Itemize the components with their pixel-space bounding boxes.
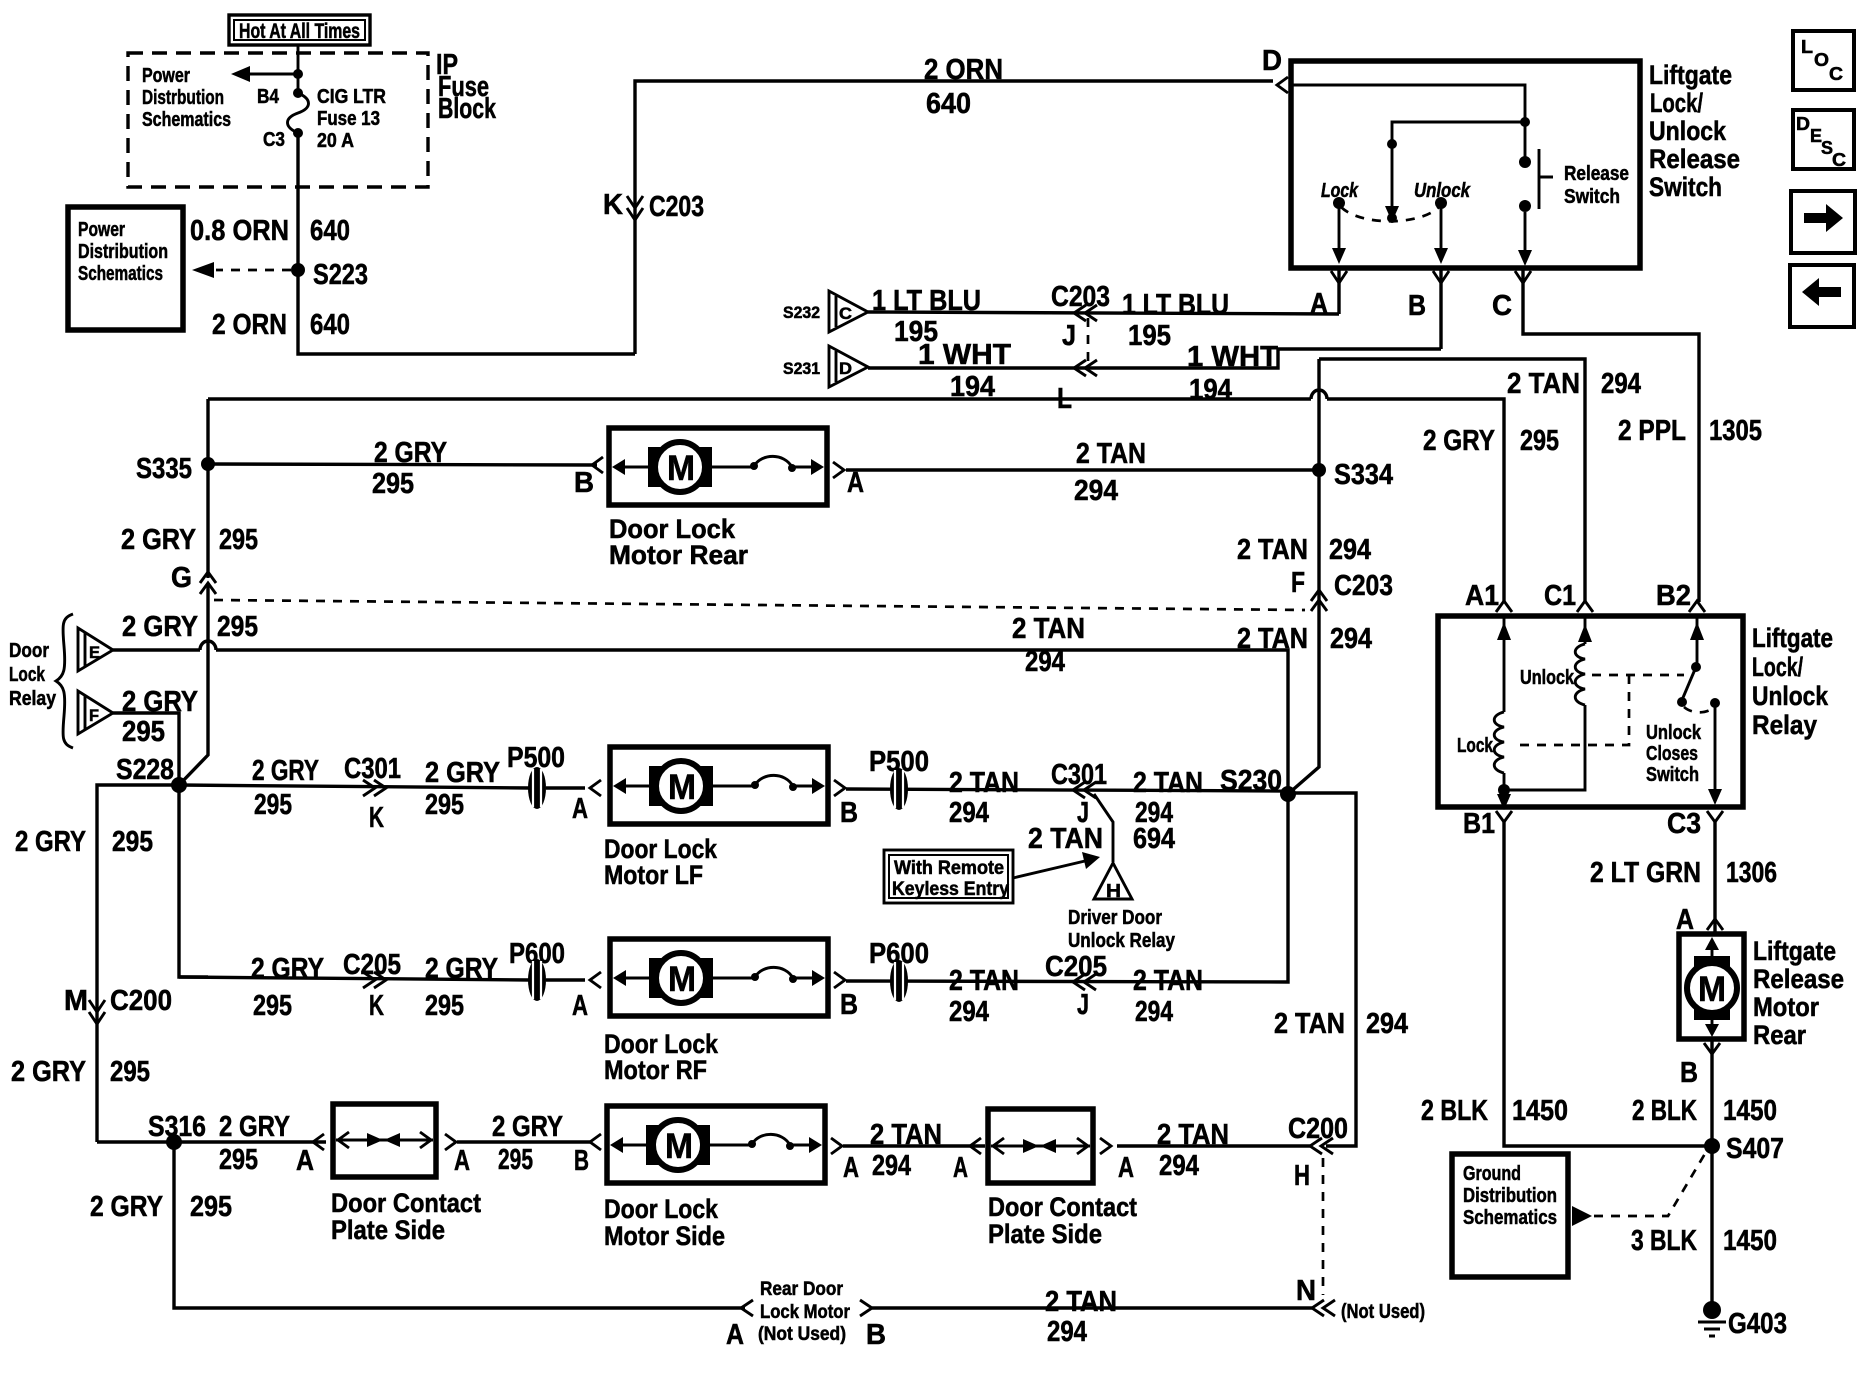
svg-text:C203: C203 — [1051, 281, 1110, 313]
svg-text:294: 294 — [1074, 475, 1118, 507]
svg-text:M: M — [665, 1127, 693, 1166]
svg-text:Rear: Rear — [1753, 1020, 1806, 1050]
wire: plate A to motor side B — [445, 1111, 601, 1177]
svg-text:1 LT BLU: 1 LT BLU — [872, 285, 981, 317]
label Hot At All Times — [229, 15, 370, 45]
svg-text:Distribution: Distribution — [78, 241, 168, 263]
svg-text:2 GRY: 2 GRY — [15, 826, 86, 858]
svg-text:295: 295 — [425, 789, 464, 821]
svg-text:2 GRY: 2 GRY — [121, 524, 196, 556]
svg-text:2 GRY: 2 GRY — [492, 1111, 563, 1143]
dashed connector C203 G to F — [214, 600, 1305, 610]
svg-text:2 ORN: 2 ORN — [212, 309, 287, 341]
wire: 2 TAN 694 branch to driver door unlock relay — [1028, 794, 1175, 862]
wire: motor side A to plate side 2 — [831, 1119, 985, 1184]
svg-text:640: 640 — [310, 215, 350, 247]
wire: 2 TAN 294 motor rear A to S334 — [833, 438, 1319, 507]
svg-text:2 TAN: 2 TAN — [1133, 965, 1203, 997]
relay lock coil branch (A1 to B1) — [1457, 616, 1511, 810]
svg-text:M: M — [64, 985, 88, 1017]
svg-text:Liftgate: Liftgate — [1752, 623, 1833, 653]
svg-text:Switch: Switch — [1564, 186, 1620, 208]
svg-text:294: 294 — [1330, 623, 1372, 655]
svg-text:694: 694 — [1133, 823, 1175, 855]
svg-text:(Not Used): (Not Used) — [758, 1324, 846, 1345]
svg-text:295: 295 — [190, 1191, 232, 1223]
svg-text:S228: S228 — [116, 754, 174, 786]
svg-text:Motor RF: Motor RF — [604, 1055, 707, 1085]
door lock relay label and brace — [9, 614, 73, 748]
connector C203 dashed J-L — [1087, 318, 1090, 362]
door lock motor rear — [609, 428, 827, 570]
Liftgate Lock/Unlock Release Switch box — [1291, 60, 1740, 268]
splice S335 — [136, 399, 215, 578]
svg-text:A: A — [847, 467, 864, 499]
svg-text:A: A — [296, 1145, 314, 1177]
wire label: 2 GRY 295 down to relay A1 — [1423, 425, 1559, 457]
svg-text:294: 294 — [1366, 1008, 1408, 1040]
relay unlock coil branch (C1) — [1504, 616, 1592, 790]
splice S407 — [1704, 1133, 1784, 1165]
door contact plate side (left) — [331, 1104, 481, 1245]
svg-text:1450: 1450 — [1723, 1225, 1777, 1257]
svg-text:C200: C200 — [1288, 1113, 1348, 1145]
labels 2 TAN 294 above F connector — [1237, 534, 1371, 566]
svg-text:2 GRY: 2 GRY — [1423, 425, 1495, 457]
svg-text:295: 295 — [372, 468, 414, 500]
wire label: 3 BLK 1450 to ground — [1631, 1225, 1777, 1257]
svg-text:H: H — [1106, 881, 1121, 901]
svg-text:Release: Release — [1564, 163, 1629, 185]
connector F C203 on S334 vertical — [1237, 567, 1393, 655]
wire label: 2 PPL 1305 down to relay B2 — [1618, 415, 1762, 447]
dashed wire to power distribution schematics — [192, 262, 291, 278]
svg-text:With Remote: With Remote — [894, 858, 1004, 879]
splice S228 — [116, 754, 187, 793]
ground G403 — [1698, 1301, 1787, 1340]
svg-text:C200: C200 — [110, 985, 172, 1017]
svg-text:B1: B1 — [1463, 808, 1495, 840]
door lock motor LF — [604, 747, 828, 890]
svg-text:2 TAN: 2 TAN — [1507, 368, 1580, 400]
wire: A pin down to LT BLU row — [1337, 268, 1340, 314]
svg-text:Fuse 13: Fuse 13 — [317, 108, 380, 130]
svg-text:M: M — [667, 449, 695, 488]
svg-text:2 TAN: 2 TAN — [1076, 438, 1146, 470]
wire: plate side 2 to C200 H — [1117, 1144, 1310, 1147]
svg-text:294: 294 — [949, 797, 989, 829]
svg-text:2 TAN: 2 TAN — [870, 1119, 942, 1151]
svg-text:Hot At All Times: Hot At All Times — [239, 20, 360, 43]
svg-text:Liftgate: Liftgate — [1753, 936, 1836, 966]
svg-text:S334: S334 — [1334, 459, 1393, 491]
rear door lock motor (not used) row — [726, 1275, 1425, 1351]
svg-text:S230: S230 — [1220, 765, 1282, 797]
svg-text:Unlock: Unlock — [1752, 681, 1829, 711]
svg-text:294: 294 — [1159, 1150, 1199, 1182]
svg-text:Power: Power — [78, 219, 125, 241]
svg-text:294: 294 — [1025, 646, 1065, 678]
svg-text:2 GRY: 2 GRY — [425, 757, 500, 789]
svg-text:B: B — [866, 1319, 886, 1351]
svg-text:295: 295 — [219, 524, 258, 556]
wire: S228 down branch to RF row — [179, 785, 208, 977]
ground distribution schematics box — [1452, 1152, 1706, 1277]
svg-text:C: C — [839, 304, 852, 323]
svg-text:O: O — [1814, 50, 1829, 70]
splice S223 — [291, 259, 368, 291]
wire: long run to liftgate relay pin A1 (hops over S334 vertical) — [208, 390, 1504, 602]
connector M C200 on left vertical — [11, 985, 172, 1088]
svg-text:294: 294 — [1601, 368, 1641, 400]
release switch pushbutton — [1518, 149, 1629, 266]
connector C200 H — [1288, 1113, 1348, 1192]
wire: release motor B 2 BLK 1450 to S407 — [1632, 1039, 1777, 1307]
svg-text:295: 295 — [219, 1144, 258, 1176]
wire: plate 2 to C200 H labels — [1100, 1119, 1229, 1184]
svg-text:C203: C203 — [649, 191, 704, 223]
svg-text:A: A — [726, 1319, 744, 1351]
S231 triangle D — [783, 346, 868, 387]
svg-text:295: 295 — [112, 826, 153, 858]
inline connector P500 (left) — [507, 742, 601, 825]
svg-text:295: 295 — [425, 990, 464, 1022]
wire: 1 WHT 194 row (B circuit) — [868, 339, 1441, 415]
wire: 0.8 ORN 640 from fuse to S223 — [190, 133, 350, 270]
svg-text:2 TAN: 2 TAN — [1237, 534, 1308, 566]
svg-text:Schematics: Schematics — [1463, 1207, 1557, 1229]
wire: 1 LT BLU 195 row (A circuit) — [868, 281, 1339, 352]
svg-text:294: 294 — [949, 996, 989, 1028]
svg-text:20 A: 20 A — [317, 130, 354, 152]
svg-text:C205: C205 — [343, 949, 401, 981]
svg-text:Unlock Relay: Unlock Relay — [1068, 930, 1176, 952]
svg-text:Closes: Closes — [1646, 743, 1698, 765]
connector D arrow at release switch — [1262, 45, 1288, 93]
svg-text:Motor: Motor — [1753, 992, 1819, 1022]
svg-text:Relay: Relay — [1752, 710, 1817, 740]
svg-text:D: D — [1262, 45, 1282, 77]
svg-text:295: 295 — [110, 1056, 150, 1088]
svg-text:K: K — [603, 189, 623, 221]
svg-text:2 GRY: 2 GRY — [11, 1056, 86, 1088]
svg-text:Rear Door: Rear Door — [760, 1279, 844, 1300]
svg-text:2 TAN: 2 TAN — [1012, 613, 1085, 645]
svg-text:1305: 1305 — [1709, 415, 1762, 447]
S232 triangle C — [783, 291, 868, 332]
wire: 2 GRY 295 relay E to S230 vertical (hops over S335 vertical) — [113, 611, 1288, 794]
svg-text:A: A — [1118, 1152, 1134, 1184]
svg-text:D: D — [1796, 114, 1810, 134]
svg-text:A: A — [572, 990, 588, 1022]
svg-text:F: F — [1291, 567, 1305, 599]
svg-text:Motor Side: Motor Side — [604, 1221, 725, 1251]
svg-text:B4: B4 — [257, 86, 280, 108]
svg-text:G: G — [171, 562, 192, 594]
svg-text:2 GRY: 2 GRY — [122, 611, 198, 643]
wire: arrow to power distribution inside fuse block — [231, 66, 303, 82]
svg-text:Schematics: Schematics — [142, 109, 231, 131]
svg-text:L: L — [1801, 37, 1813, 57]
svg-text:1306: 1306 — [1726, 857, 1777, 889]
wire: 2 GRY 295 S335 to door lock motor rear B — [208, 437, 603, 500]
svg-text:2 GRY: 2 GRY — [219, 1111, 290, 1143]
svg-text:B: B — [840, 989, 858, 1021]
svg-text:Release: Release — [1753, 964, 1844, 994]
svg-text:C: C — [1832, 150, 1846, 170]
wire: B1 2 BLK 1450 down to S407 — [1421, 822, 1712, 1146]
svg-text:B2: B2 — [1656, 580, 1691, 612]
svg-text:A: A — [572, 793, 588, 825]
switch contacts Lock / Unlock — [1321, 180, 1471, 264]
svg-text:M: M — [668, 768, 696, 807]
svg-text:C301: C301 — [344, 753, 401, 785]
svg-text:2 ORN: 2 ORN — [924, 54, 1003, 86]
svg-text:Plate Side: Plate Side — [331, 1215, 445, 1245]
svg-text:B: B — [1680, 1057, 1698, 1089]
door lock motor side — [604, 1106, 825, 1251]
svg-text:(Not Used): (Not Used) — [1341, 1301, 1425, 1323]
svg-text:Ground: Ground — [1463, 1163, 1521, 1185]
svg-text:S223: S223 — [313, 259, 368, 291]
svg-text:H: H — [1294, 1160, 1310, 1192]
IP fuse block dashed box — [128, 49, 497, 187]
svg-text:2 TAN: 2 TAN — [1045, 1286, 1117, 1318]
wire: S230 right to C200 H vertical — [1288, 793, 1356, 1146]
svg-text:S232: S232 — [783, 303, 820, 322]
relay pins B1 C3 — [1463, 808, 1723, 840]
svg-text:J: J — [1077, 989, 1089, 1021]
relay internal dashed linkages — [1512, 675, 1684, 745]
svg-text:3 BLK: 3 BLK — [1631, 1225, 1697, 1257]
svg-text:1 WHT: 1 WHT — [918, 339, 1011, 371]
wire: 2 GRY 295 relay F down to S228 — [113, 686, 198, 785]
svg-text:295: 295 — [498, 1144, 533, 1176]
pins A B C of release switch — [1310, 271, 1531, 322]
wire: 2 ORN 640 from S223 down and right — [212, 270, 635, 354]
svg-text:Switch: Switch — [1646, 764, 1699, 786]
svg-text:Door: Door — [9, 640, 49, 662]
splice S334 on vertical from C1 run — [1288, 359, 1641, 794]
svg-text:295: 295 — [122, 716, 165, 748]
svg-text:A: A — [953, 1152, 968, 1184]
svg-text:J: J — [1062, 320, 1076, 352]
svg-text:A1: A1 — [1465, 580, 1499, 612]
driver door unlock relay triangle H — [1068, 863, 1176, 952]
svg-text:294: 294 — [1135, 996, 1173, 1028]
svg-text:2 GRY: 2 GRY — [251, 953, 324, 985]
svg-text:C301: C301 — [1051, 759, 1107, 791]
svg-text:S407: S407 — [1726, 1133, 1784, 1165]
splice S230 — [1220, 765, 1296, 802]
svg-text:195: 195 — [1128, 320, 1171, 352]
svg-text:Plate Side: Plate Side — [988, 1219, 1102, 1249]
With Remote Keyless Entry callout box — [884, 850, 1100, 903]
svg-text:B: B — [574, 1145, 589, 1177]
svg-text:2 TAN: 2 TAN — [1028, 823, 1103, 855]
svg-text:1 WHT: 1 WHT — [1187, 341, 1278, 373]
wire: RF row 2 GRY 295 C205 K — [179, 949, 530, 1022]
svg-text:Lock/: Lock/ — [1650, 88, 1703, 118]
svg-text:1 LT BLU: 1 LT BLU — [1122, 289, 1229, 321]
wire: C3 2 LT GRN 1306 to release motor A — [1590, 822, 1777, 936]
svg-text:Lock Motor: Lock Motor — [760, 1302, 851, 1323]
svg-text:A: A — [1676, 904, 1694, 936]
svg-text:F: F — [89, 706, 99, 725]
svg-text:Motor LF: Motor LF — [604, 860, 703, 890]
svg-text:294: 294 — [872, 1150, 911, 1182]
svg-text:E: E — [89, 643, 100, 662]
svg-text:Distrbution: Distrbution — [142, 87, 224, 109]
svg-text:Unlock: Unlock — [1649, 116, 1727, 146]
svg-text:2 GRY: 2 GRY — [425, 953, 498, 985]
svg-text:C203: C203 — [1334, 570, 1393, 602]
release switch internal wiring — [1293, 85, 1530, 223]
wire: S228 left branch down left side — [15, 785, 179, 1142]
svg-text:Schematics: Schematics — [78, 263, 163, 285]
svg-text:N: N — [1296, 1275, 1316, 1307]
dashed wire C200 H to N (not used) — [1322, 1158, 1325, 1295]
door lock relay terminal F triangle — [78, 691, 113, 734]
svg-text:2 TAN: 2 TAN — [1157, 1119, 1229, 1151]
svg-text:C3: C3 — [1667, 808, 1701, 840]
svg-text:Lock: Lock — [9, 664, 46, 686]
svg-text:Motor Rear: Motor Rear — [609, 540, 748, 570]
svg-text:C205: C205 — [1045, 951, 1107, 983]
svg-text:295: 295 — [254, 789, 292, 821]
splice S316 — [97, 1111, 326, 1177]
svg-text:Block: Block — [438, 93, 497, 125]
svg-text:S335: S335 — [136, 453, 192, 485]
svg-text:K: K — [369, 802, 384, 834]
svg-text:A: A — [843, 1152, 859, 1184]
svg-text:C1: C1 — [1544, 580, 1576, 612]
svg-text:194: 194 — [1189, 374, 1232, 406]
svg-text:S231: S231 — [783, 359, 820, 378]
svg-text:S316: S316 — [148, 1111, 206, 1143]
nav box right arrow — [1791, 191, 1855, 253]
svg-text:2 LT GRN: 2 LT GRN — [1590, 857, 1701, 889]
svg-text:2 GRY: 2 GRY — [252, 755, 319, 787]
svg-text:Switch: Switch — [1649, 172, 1722, 202]
relay pins A1 C1 B2 — [1465, 580, 1705, 612]
svg-text:0.8 ORN: 0.8 ORN — [190, 215, 289, 247]
wire: S335 vertical continues below G to S228 — [179, 583, 208, 785]
relay switch (B2 to C3) — [1646, 616, 1722, 805]
svg-text:Lock: Lock — [1457, 735, 1494, 757]
svg-text:640: 640 — [310, 309, 350, 341]
svg-text:Power: Power — [142, 65, 190, 87]
svg-text:2 BLK: 2 BLK — [1632, 1095, 1697, 1127]
svg-text:B: B — [574, 467, 594, 499]
svg-text:294: 294 — [1329, 534, 1371, 566]
svg-text:2 GRY: 2 GRY — [90, 1191, 163, 1223]
svg-text:295: 295 — [253, 990, 292, 1022]
svg-text:2 BLK: 2 BLK — [1421, 1095, 1488, 1127]
svg-text:K: K — [369, 990, 384, 1022]
svg-text:295: 295 — [1520, 425, 1559, 457]
liftgate release motor rear — [1679, 934, 1844, 1050]
svg-text:D: D — [839, 359, 852, 378]
wire: motor RF B through P600 to C205 J then up to S230 — [834, 794, 1288, 1028]
svg-text:295: 295 — [217, 611, 258, 643]
wire: S316 down to rear door lock motor row — [90, 1142, 745, 1308]
svg-text:294: 294 — [1047, 1316, 1087, 1348]
svg-text:2 TAN: 2 TAN — [1133, 767, 1203, 799]
inline connector P600 (left) — [509, 938, 601, 1022]
svg-text:G403: G403 — [1728, 1308, 1787, 1340]
svg-text:A: A — [1310, 288, 1328, 320]
svg-text:Door Contact: Door Contact — [331, 1188, 481, 1218]
svg-text:Lock/: Lock/ — [1752, 652, 1803, 682]
door lock motor RF — [604, 939, 828, 1085]
svg-text:2 TAN: 2 TAN — [949, 767, 1019, 799]
fuse CIG LTR Fuse 13 20 A — [257, 45, 386, 152]
svg-text:Door Contact: Door Contact — [988, 1192, 1137, 1222]
door lock relay terminal E triangle — [78, 628, 113, 671]
svg-text:Driver Door: Driver Door — [1068, 907, 1162, 929]
wire: C pin down right to 2 PPL vertical — [1523, 268, 1699, 602]
svg-text:B: B — [1408, 290, 1426, 322]
svg-text:M: M — [668, 960, 696, 999]
svg-text:2 PPL: 2 PPL — [1618, 415, 1686, 447]
svg-text:C: C — [1492, 290, 1512, 322]
svg-text:Door Lock: Door Lock — [604, 1194, 719, 1224]
svg-text:A: A — [454, 1145, 470, 1177]
labels 2 TAN 294 on right mid vertical — [1274, 1008, 1408, 1040]
nav box LOC — [1793, 31, 1854, 90]
svg-text:Unlock: Unlock — [1520, 667, 1575, 689]
svg-text:C3: C3 — [263, 129, 285, 151]
liftgate lock/unlock relay box — [1438, 616, 1833, 807]
svg-text:2 TAN: 2 TAN — [1274, 1008, 1345, 1040]
svg-text:Unlock: Unlock — [1646, 722, 1702, 744]
svg-text:M: M — [1698, 970, 1726, 1009]
wire: vertical to top 2 ORN 640 run with connector K C203 — [603, 54, 1273, 354]
svg-text:B: B — [840, 797, 858, 829]
door contact plate side (right) — [988, 1109, 1137, 1249]
connector G on S335 vertical — [121, 524, 258, 594]
svg-text:C: C — [1829, 64, 1843, 84]
svg-text:1450: 1450 — [1723, 1095, 1777, 1127]
Power Distribution Schematics box — [68, 207, 183, 330]
wire: S228 right 2 GRY 295 to connector C301 K — [179, 753, 530, 834]
svg-text:1450: 1450 — [1512, 1095, 1568, 1127]
wire: motor LF B through P500 to C301 J and S230 — [834, 746, 1288, 829]
svg-text:640: 640 — [926, 88, 971, 120]
svg-text:Keyless Entry: Keyless Entry — [892, 879, 1009, 900]
nav box DESC — [1793, 110, 1854, 170]
svg-text:2 TAN: 2 TAN — [949, 965, 1019, 997]
svg-text:Liftgate: Liftgate — [1649, 60, 1732, 90]
svg-text:Release: Release — [1649, 144, 1740, 174]
nav box left arrow — [1790, 265, 1854, 327]
svg-text:Distribution: Distribution — [1463, 1185, 1557, 1207]
svg-text:2 GRY: 2 GRY — [374, 437, 447, 469]
svg-text:CIG LTR: CIG LTR — [317, 86, 386, 108]
svg-text:Relay: Relay — [9, 688, 57, 710]
wire: B pin down to WHT row — [1439, 268, 1442, 349]
